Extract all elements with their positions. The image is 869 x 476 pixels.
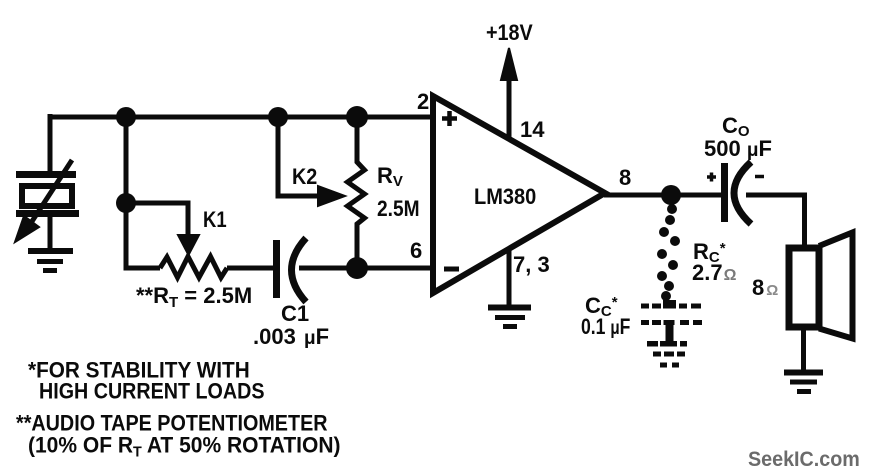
wire C1 to pin 6 <box>299 266 433 271</box>
capacitor C1 <box>277 238 307 302</box>
node K1 junction <box>116 193 136 213</box>
ground pickup <box>28 251 73 271</box>
svg-text:500 μF: 500 μF <box>704 136 772 161</box>
svg-text:(10% OF RT AT 50% ROTATION): (10% OF RT AT 50% ROTATION) <box>28 433 340 461</box>
wire pin 8 output <box>604 193 722 198</box>
svg-text:0.1 μF: 0.1 μF <box>581 315 630 339</box>
svg-text:K1: K1 <box>203 209 227 233</box>
svg-text:6: 6 <box>410 238 422 263</box>
svg-text:K2: K2 <box>292 165 317 189</box>
wire R_T to C1 <box>227 266 274 271</box>
node R_V top junction <box>346 106 368 128</box>
svg-text:.003 μF: .003 μF <box>253 324 329 349</box>
svg-text:**RT = 2.5M: **RT = 2.5M <box>136 283 252 311</box>
crystal pickup top plate <box>16 171 76 178</box>
wire K2 wiper arm <box>278 117 345 206</box>
svg-text:7, 3: 7, 3 <box>513 252 550 277</box>
capacitor C_C dashed <box>641 300 702 343</box>
crystal pickup body <box>22 186 72 206</box>
wire to R_T <box>124 266 161 271</box>
label C_O polarity + <box>707 173 716 182</box>
wire pickup drop <box>48 114 53 171</box>
ground speaker <box>784 373 823 392</box>
wire pins 7,3 to ground <box>507 250 512 305</box>
svg-text:LM380: LM380 <box>474 185 536 209</box>
label C_O polarity - <box>755 175 764 179</box>
resistor R_T <box>160 257 227 278</box>
label - input <box>444 267 459 272</box>
svg-text:14: 14 <box>520 117 545 142</box>
node input rail junction <box>116 107 136 127</box>
resistor R_C dotted <box>657 204 680 301</box>
node pin 6 junction <box>346 257 368 279</box>
crystal pickup variable arrow <box>15 160 72 242</box>
wire K1 wiper arm <box>126 203 199 255</box>
svg-text:SeekIC.com: SeekIC.com <box>748 448 860 471</box>
crystal pickup bottom plate <box>16 210 79 217</box>
svg-text:8: 8 <box>619 165 631 190</box>
resistor R_V <box>348 117 365 268</box>
speaker LS1 <box>789 233 853 339</box>
op-amp U1 LM380 <box>433 96 605 293</box>
ground op-amp <box>488 308 531 327</box>
wire top rail input to pin 2 <box>50 115 433 120</box>
svg-text:HIGH CURRENT LOADS: HIGH CURRENT LOADS <box>39 380 265 404</box>
svg-text:C1: C1 <box>281 301 309 326</box>
capacitor C_O <box>725 162 752 224</box>
svg-text:2: 2 <box>417 89 429 114</box>
svg-text:2.5M: 2.5M <box>377 197 420 222</box>
node output junction <box>661 185 681 205</box>
ground C_C dashed <box>647 341 687 368</box>
wire speaker to ground <box>801 327 806 371</box>
node K2 junction <box>268 107 288 127</box>
wire C_O to speaker <box>746 195 805 249</box>
wire pickup to ground <box>48 216 53 249</box>
power +18V arrow to pin 14 <box>501 48 517 139</box>
svg-text:+18V: +18V <box>486 21 533 45</box>
wire left branch vertical <box>124 117 129 268</box>
label + input <box>442 111 457 126</box>
